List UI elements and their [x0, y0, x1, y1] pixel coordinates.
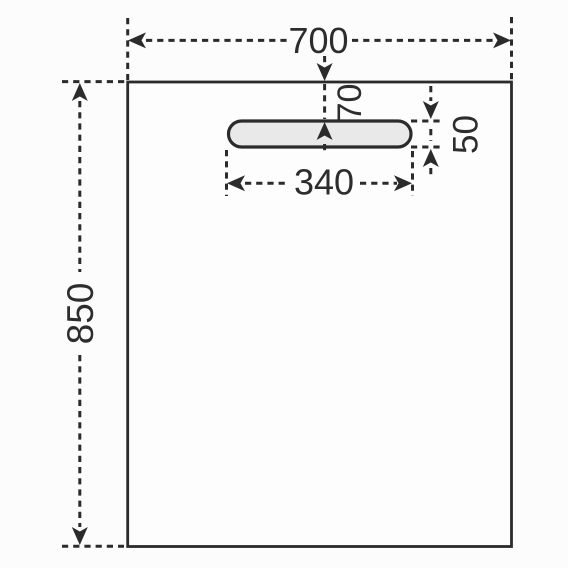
dim 850 top extension line — [62, 80, 126, 83]
svg-text:70: 70 — [331, 84, 369, 122]
dim 850 bottom extension line — [62, 545, 124, 548]
dim 50 down arrowhead — [423, 101, 439, 119]
svg-text:850: 850 — [60, 283, 101, 345]
dim 70 dimension line upper segment — [323, 56, 326, 63]
dim 50 dimension line upper segment — [429, 86, 432, 101]
dim 340 dimension line left segment — [245, 182, 288, 185]
dim 340 right extension line — [411, 151, 414, 196]
panel outline — [128, 82, 512, 547]
dim 70 dimension line middle segment — [323, 84, 326, 119]
dim 340 right arrowhead — [394, 175, 412, 191]
svg-text:700: 700 — [288, 20, 348, 61]
dim 340 left arrowhead — [227, 175, 245, 191]
dim 850 up arrowhead — [72, 83, 88, 101]
dim 700 dimension line right segment — [352, 39, 496, 42]
svg-text:340: 340 — [294, 162, 354, 203]
dim 850 dimension line lower segment — [78, 355, 81, 527]
svg-text:50: 50 — [447, 115, 486, 154]
dim 700 dimension line left segment — [146, 39, 288, 42]
dim 700 left arrowhead — [128, 32, 146, 48]
dim 50 dimension line middle segment — [429, 129, 432, 141]
dim 850 down arrowhead — [72, 527, 88, 545]
dim 700 right extension line — [510, 17, 513, 80]
dim 50 top extension line — [411, 120, 444, 123]
dim 50 dimension line lower segment — [429, 168, 432, 178]
dim 340 left extension line — [225, 150, 228, 196]
dim 340 dimension line right segment — [360, 182, 397, 185]
dim 50 up arrowhead — [423, 149, 439, 167]
dim 700 right arrowhead — [493, 32, 511, 48]
dim 70 up arrowhead — [317, 122, 333, 140]
dim 850 dimension line upper segment — [78, 101, 81, 272]
dim 70 down arrowhead — [317, 63, 333, 81]
handle slot — [229, 121, 412, 147]
dim 50 bottom extension line — [411, 146, 444, 149]
dim 700 left extension line — [126, 18, 129, 80]
dim 70 dimension line lower segment — [323, 144, 326, 153]
